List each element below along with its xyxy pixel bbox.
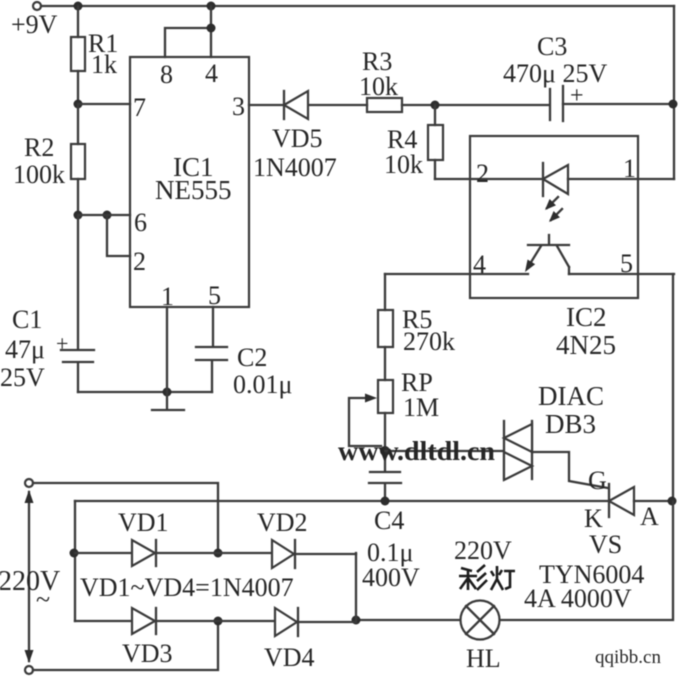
node dot DIAC branch — [380, 446, 390, 456]
svg-text:1M: 1M — [403, 393, 439, 422]
wire VD2 cathode drop — [355, 553, 357, 620]
svg-text:+: + — [56, 331, 68, 356]
wire IC1 pin1 stub — [166, 307, 168, 392]
wire pin8-pin4 strap to rail — [165, 6, 211, 57]
svg-text:6: 6 — [134, 208, 147, 237]
svg-text:DB3: DB3 — [545, 409, 596, 439]
svg-text:R2: R2 — [24, 133, 54, 162]
diode VD4 — [275, 608, 297, 636]
svg-text:25V: 25V — [0, 363, 45, 392]
wire pin 7 — [78, 103, 130, 105]
svg-text:VD2: VD2 — [257, 508, 308, 537]
potentiometer RP 1M — [378, 380, 393, 413]
svg-text:VD3: VD3 — [122, 639, 173, 668]
wire AC top to bridge — [33, 483, 218, 553]
wire node to DIAC — [385, 450, 503, 452]
node junction dot top rail at pin4 riser — [207, 2, 216, 11]
svg-text:10k: 10k — [359, 72, 398, 101]
svg-text:www.dltdl.cn: www.dltdl.cn — [338, 436, 495, 466]
wire RP to C4 node — [384, 413, 386, 470]
node dot bridge output — [352, 616, 361, 625]
svg-text:4N25: 4N25 — [556, 330, 616, 360]
node dot pin4 strap — [207, 24, 216, 33]
wire bottom rail left of VS — [75, 500, 607, 502]
svg-text:C4: C4 — [374, 506, 404, 535]
svg-text:C2: C2 — [237, 343, 267, 372]
svg-text:5: 5 — [208, 281, 221, 310]
svg-text:10k: 10k — [384, 150, 423, 179]
resistor R2 — [77, 104, 79, 215]
svg-text:VS: VS — [589, 530, 622, 559]
diode VD3 — [132, 608, 155, 634]
svg-text:0.01μ: 0.01μ — [233, 370, 292, 399]
op-amp IC1 NE555 body — [130, 57, 249, 307]
wire R3 to C3 — [402, 104, 549, 106]
svg-text:2: 2 — [476, 159, 489, 188]
svg-text:1N4007: 1N4007 — [253, 153, 337, 182]
wire LED to pin1 and right rail — [568, 178, 674, 180]
wire R2 bottom to C1 — [77, 215, 79, 349]
svg-text:DIAC: DIAC — [538, 381, 604, 411]
diode VD5 1N4007 — [283, 91, 285, 119]
svg-text:HL: HL — [466, 644, 501, 673]
wire right rail upper (top to IC2 pin1) — [673, 6, 675, 179]
svg-text:VD4: VD4 — [264, 643, 315, 672]
wire C3 to right rail — [563, 103, 674, 105]
svg-text:IC2: IC2 — [566, 302, 607, 332]
node dot R3/R4 junction — [431, 101, 440, 110]
svg-text:NE555: NE555 — [155, 175, 232, 205]
lamp label 彩灯 drawn strokes — [459, 565, 515, 590]
resistor R4 — [434, 105, 436, 179]
diode VD2 — [272, 540, 294, 568]
wire lamp to bridge output — [356, 619, 460, 621]
node dot C4 on bottom rail — [381, 497, 390, 506]
thyristor VS TYN6004 — [608, 484, 610, 517]
wire RP wiper arm — [349, 398, 381, 446]
node dot AC top into bridge — [214, 549, 223, 558]
svg-text:7: 7 — [133, 93, 146, 122]
ground — [166, 392, 168, 409]
LED inside IC2 — [542, 163, 544, 196]
wire pin4 line — [385, 273, 674, 275]
wire pin 3 output — [249, 104, 367, 106]
wire AC bottom to bridge — [33, 621, 218, 670]
node dot bridge left — [70, 549, 79, 558]
node dot right rail at C3 — [669, 100, 678, 109]
wire top +9V rail — [41, 5, 674, 7]
svg-text:3: 3 — [232, 92, 245, 121]
wire pin 2 loop — [107, 215, 130, 256]
svg-text:2: 2 — [133, 247, 146, 276]
svg-text:~: ~ — [36, 585, 50, 614]
wire pin 6 — [78, 214, 130, 216]
svg-text:4A 4000V: 4A 4000V — [524, 584, 632, 613]
resistor R3 — [367, 98, 402, 112]
svg-text:VD1~VD4=1N4007: VD1~VD4=1N4007 — [80, 573, 294, 602]
node +9V terminal — [33, 2, 41, 10]
node junction dot top rail at R1 — [74, 2, 83, 11]
resistor R1 — [77, 6, 79, 104]
capacitor C4 0.1u 400V — [370, 471, 400, 473]
node AC input top terminal — [25, 479, 33, 487]
diode VD1 — [132, 540, 155, 566]
node dot AC bottom into bridge — [214, 617, 223, 626]
wire VD3 VD4 row — [75, 621, 356, 622]
wire right rail lower to lamp line — [499, 501, 673, 620]
LED light arrow 1 — [547, 197, 558, 208]
svg-text:C3: C3 — [537, 32, 567, 61]
svg-text:G: G — [588, 466, 607, 495]
node AC input bottom terminal — [25, 666, 33, 674]
diac DB3 — [503, 421, 505, 479]
capacitor C3 470u 25V — [549, 89, 551, 120]
svg-text:470μ 25V: 470μ 25V — [503, 59, 607, 88]
wire R4 to IC2 pin2 / LED line — [435, 178, 542, 180]
svg-text:+9V: +9V — [11, 10, 58, 39]
node dot pin6 loop — [103, 211, 112, 220]
svg-text:220V: 220V — [454, 536, 512, 565]
svg-text:400V: 400V — [362, 563, 420, 592]
node dot at pin7 junction — [74, 100, 83, 109]
op-amp IC2 4N25 body — [470, 136, 638, 298]
svg-text:VD5: VD5 — [272, 124, 323, 153]
svg-text:VD1: VD1 — [118, 508, 169, 537]
wire ground bus — [78, 391, 212, 393]
svg-text:1k: 1k — [91, 50, 117, 79]
wire right rail pin5 down to bottom rail — [672, 274, 674, 501]
svg-text:qqibb.cn: qqibb.cn — [595, 647, 661, 668]
LED light arrow 2 — [551, 209, 562, 220]
wire bridge left vertical — [74, 501, 76, 621]
transistor Q1 phototransistor of IC2 — [528, 235, 569, 274]
node dot R2 bottom — [74, 211, 83, 220]
svg-text:4: 4 — [205, 59, 218, 88]
node dot bottom rail right — [668, 497, 677, 506]
wire VD1 VD2 row — [75, 553, 356, 554]
resistor R5 270k — [384, 274, 386, 380]
svg-text:K: K — [584, 504, 603, 533]
svg-text:270k: 270k — [403, 327, 455, 356]
wire 220V dimension arrow — [28, 492, 30, 661]
svg-text:100k: 100k — [13, 160, 65, 189]
svg-text:47μ: 47μ — [5, 335, 45, 364]
svg-text:A: A — [640, 502, 659, 531]
wire DIAC to gate — [532, 452, 608, 488]
capacitor C2 0.01u — [212, 307, 214, 346]
svg-text:C1: C1 — [12, 305, 42, 334]
node dot ground junction — [163, 388, 172, 397]
svg-text:220V: 220V — [0, 566, 60, 597]
svg-text:8: 8 — [160, 60, 173, 89]
lamp HL — [461, 601, 500, 640]
